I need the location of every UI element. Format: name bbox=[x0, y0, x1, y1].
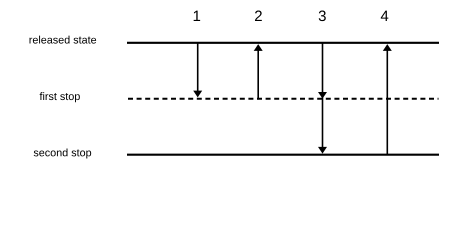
number 2 bbox=[255, 11, 262, 21]
number 1 bbox=[194, 11, 200, 21]
arrow 1 (released state to first stop, down) bbox=[193, 44, 202, 98]
second stop line bbox=[127, 154, 439, 156]
released state line bbox=[127, 42, 439, 44]
first stop dashed line bbox=[128, 98, 439, 100]
label first stop bbox=[40, 92, 80, 102]
arrow 2 (first stop to released state, up) bbox=[254, 44, 263, 100]
number 4 bbox=[381, 11, 389, 21]
arrow 4 (second stop to released state, up) bbox=[383, 44, 392, 154]
label released state bbox=[30, 36, 97, 44]
number 3 bbox=[319, 11, 326, 22]
label second stop bbox=[34, 148, 91, 158]
arrow 3 (released state through first stop to second stop, down, two heads) bbox=[318, 44, 327, 154]
